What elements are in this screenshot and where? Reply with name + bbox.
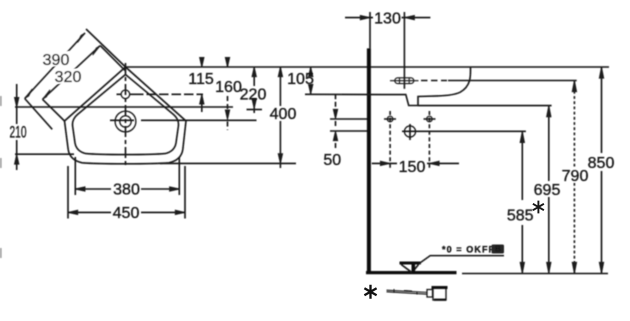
svg-text:105: 105 <box>287 71 314 88</box>
mounting hole right vertical centerline/witness <box>428 111 430 170</box>
witness line W2 <box>43 99 65 121</box>
floor line thick segment <box>366 271 457 274</box>
svg-text:115: 115 <box>188 71 214 88</box>
OKFFB smudge blob <box>492 245 505 254</box>
footnote icon large box <box>433 288 446 300</box>
footnote icon box bottom <box>434 299 446 301</box>
footnote asterisk <box>364 285 376 299</box>
drain hole side view <box>404 126 415 137</box>
drain level line left of wall <box>330 130 367 132</box>
wall line (side view) <box>367 48 371 272</box>
160 top arrow <box>225 58 229 68</box>
mounting hole left vertical centerline/witness <box>389 111 391 170</box>
witness line W1 <box>25 99 53 130</box>
50 dimension line <box>335 94 337 149</box>
svg-text:390: 390 <box>43 52 70 69</box>
150 left arrow <box>380 161 390 165</box>
130 left arrow <box>360 15 370 19</box>
50 bottom arrow <box>333 131 337 141</box>
790 bottom arrow <box>572 262 576 273</box>
130 dimension line <box>345 17 430 19</box>
faucet obround hole <box>395 78 414 84</box>
obround crosshair tick <box>390 80 419 82</box>
short 220-level tick line <box>247 109 263 111</box>
left page-edge mark 3 <box>0 248 2 258</box>
asterisk after 585 <box>533 201 544 214</box>
white backing for 390 label <box>44 51 71 67</box>
faucet hole (small) <box>121 90 130 99</box>
arrow 390 lower <box>25 89 33 99</box>
drain level line to 585 dim <box>402 130 526 132</box>
400 dimension line <box>279 67 281 168</box>
400 top arrow <box>278 67 282 77</box>
115 dimension line <box>201 57 203 112</box>
160 bottom arrow <box>225 110 229 120</box>
150 right arrow <box>429 161 439 165</box>
mounting hole right <box>427 116 433 122</box>
50 top arrow <box>333 109 337 119</box>
notch level line to 695 dim <box>418 105 552 107</box>
115 top arrow <box>200 58 204 68</box>
220 top arrow <box>252 67 256 77</box>
svg-text:400: 400 <box>270 106 297 123</box>
450 witness lines <box>68 166 185 219</box>
450 left arrow <box>68 210 78 214</box>
svg-text:850: 850 <box>588 155 615 172</box>
arrow 320 upper <box>93 46 101 56</box>
svg-text:695: 695 <box>534 182 561 199</box>
svg-text:450: 450 <box>113 205 140 222</box>
dimension line 390 <box>25 33 85 99</box>
dimension line 320 <box>43 46 101 100</box>
small hole centerline extension to 115 dim <box>134 93 203 95</box>
svg-text:220: 220 <box>240 87 267 104</box>
footnote icon ticks <box>394 289 417 295</box>
faucet witness/centerline <box>403 12 405 89</box>
arrow 320 lower <box>43 90 51 100</box>
basin top-view outer outline <box>65 67 187 164</box>
svg-text:130: 130 <box>374 11 401 28</box>
450 dimension line <box>68 211 185 213</box>
790 top arrow <box>572 81 576 92</box>
datum leader line <box>419 256 504 264</box>
left page-edge mark 2 <box>0 158 2 168</box>
svg-text:150: 150 <box>399 159 426 176</box>
drain crosshair vertical tick <box>409 124 411 140</box>
210 dimension line <box>16 84 18 170</box>
130 right arrow <box>405 15 415 19</box>
left 210-level lower line <box>15 153 74 155</box>
datum triangle filled stem <box>412 264 416 273</box>
long 160-level line <box>15 106 233 108</box>
basin top-view inner outline <box>73 75 179 155</box>
floor line thin segment <box>462 273 608 275</box>
380 left arrow <box>75 187 85 191</box>
790 dimension line (dashed) <box>573 81 575 274</box>
850 dimension line <box>601 67 603 274</box>
svg-text:B: B <box>495 245 501 254</box>
vertical centerline of top view <box>125 63 127 167</box>
arrow 390 upper <box>78 33 86 43</box>
585 top arrow <box>520 131 524 142</box>
210 top arrow <box>15 97 19 107</box>
rim reference line (shared, runs to right view) <box>126 66 610 68</box>
220 bottom arrow <box>252 99 256 109</box>
svg-text:585: 585 <box>507 208 534 225</box>
extension line A (outer edge extended) <box>86 29 126 67</box>
overflow/drain hole outer circle <box>115 111 136 132</box>
svg-text:380: 380 <box>113 182 140 199</box>
585 bottom arrow <box>520 262 524 273</box>
drain centerline extension to 220/160 dims <box>110 119 257 121</box>
105 bottom arrow <box>309 84 313 94</box>
380 right arrow <box>170 187 180 191</box>
left page-edge mark 1 <box>0 96 2 106</box>
850 bottom arrow <box>599 262 603 273</box>
695 top arrow <box>547 106 551 117</box>
extension line B (inner edge extended) <box>100 46 125 71</box>
mounting holes centerline ticks <box>330 118 436 120</box>
footnote icon small box <box>427 290 433 298</box>
400 bottom arrow <box>278 154 282 164</box>
150 dimension line <box>372 162 459 164</box>
drain hole inner circle <box>120 116 131 127</box>
svg-text:790: 790 <box>562 168 589 185</box>
105 dimension line <box>310 67 312 94</box>
svg-text:50: 50 <box>323 152 341 169</box>
585 dimension line <box>521 131 523 273</box>
svg-text:160: 160 <box>215 79 242 96</box>
695 dimension line <box>548 106 550 274</box>
svg-text:210: 210 <box>10 122 27 141</box>
datum triangle V outline <box>401 265 418 273</box>
105 top arrow <box>309 67 313 77</box>
695 bottom arrow <box>547 262 551 273</box>
white backing for 320 label <box>55 69 82 85</box>
faucet level solid part <box>448 80 577 82</box>
obround inner division lines <box>400 78 410 83</box>
wall top witness extension <box>369 12 371 48</box>
side-view basin profile <box>305 67 471 106</box>
380 dimension line <box>75 188 179 190</box>
220 dimension line <box>253 67 255 113</box>
faucet level line to 790 dim <box>421 80 447 82</box>
mounting hole left <box>387 116 393 122</box>
450 right arrow <box>175 210 185 214</box>
footnote icon box cap <box>432 286 448 289</box>
footnote drain icon wedge <box>387 290 428 294</box>
850 top arrow <box>599 67 603 78</box>
svg-text:320: 320 <box>55 69 82 86</box>
160 dimension line <box>227 57 229 130</box>
210 bottom arrow <box>15 154 19 164</box>
faucet hole crosshair tick <box>117 93 135 95</box>
datum triangle top bar <box>400 262 421 265</box>
380 witness lines <box>75 157 179 195</box>
115 bottom arrow <box>200 94 204 104</box>
bottom edge extension line to 400 dim <box>160 162 296 164</box>
